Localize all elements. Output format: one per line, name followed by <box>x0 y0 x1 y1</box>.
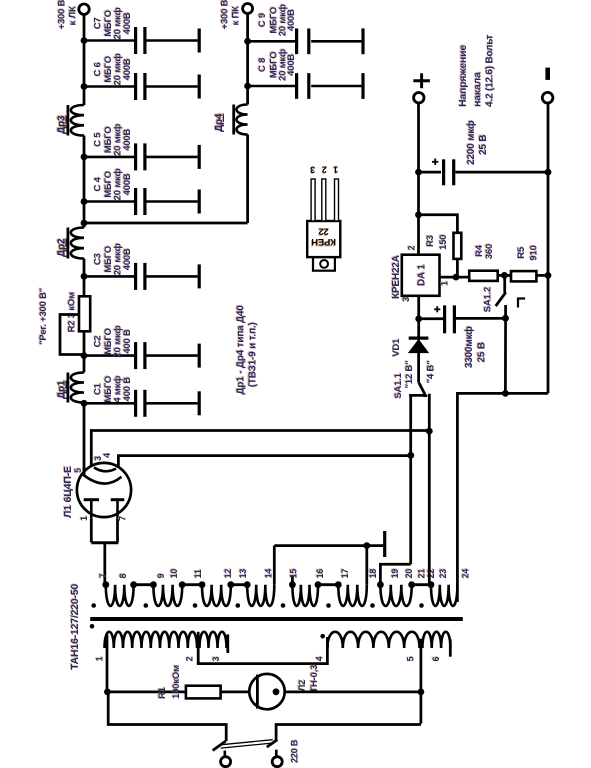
svg-text:1: 1 <box>95 657 105 662</box>
svg-text:Др2: Др2 <box>57 238 68 257</box>
transformer secondary winding 17-18 <box>338 585 367 606</box>
node C9 junction <box>244 38 251 45</box>
svg-text:400В: 400В <box>286 54 297 76</box>
wire DA1 pin2 to plus rail <box>417 215 420 255</box>
svg-text:9: 9 <box>156 574 166 579</box>
node pin 11 <box>199 581 206 588</box>
svg-text:1: 1 <box>79 516 89 521</box>
wire jumper 8-9 <box>134 583 154 586</box>
transformer secondary winding 11-12 <box>202 585 231 606</box>
transformer secondary winding 19-20 <box>380 585 411 606</box>
wire pin5 line <box>420 639 423 724</box>
ground chassis bar <box>383 531 386 557</box>
node 3300uF bottom junction <box>502 315 509 322</box>
plug pole 2 prong <box>272 757 282 767</box>
wire R3 branch <box>419 215 458 233</box>
svg-text:к ПК: к ПК <box>231 6 242 26</box>
capacitor C4 <box>84 200 134 203</box>
wire +300V PK rail <box>246 135 249 224</box>
svg-text:23: 23 <box>438 569 448 579</box>
node pin5 junction <box>418 689 425 696</box>
phasing dots secondary <box>91 603 96 608</box>
transformer secondary winding 9-10 <box>153 585 182 606</box>
wire tube heater loop <box>91 519 117 543</box>
wire R5 to minus rail <box>536 274 548 277</box>
svg-text:R1: R1 <box>157 686 168 699</box>
svg-text:18: 18 <box>368 569 378 579</box>
svg-text:SA1.2: SA1.2 <box>482 287 493 312</box>
svg-text:25 В: 25 В <box>478 135 489 155</box>
wire +300V LK rail <box>83 403 86 475</box>
node pin 13 <box>244 581 251 588</box>
node pin 7 <box>102 581 109 588</box>
svg-text:400В: 400В <box>122 248 133 270</box>
svg-text:16: 16 <box>315 569 325 579</box>
terminal +300 V k LK <box>79 4 89 14</box>
wire jumper 10-11 <box>182 583 202 586</box>
svg-text:8: 8 <box>118 574 128 579</box>
resistor R5 <box>511 271 536 281</box>
capacitor 3300uF <box>419 317 443 320</box>
node C3 junction <box>81 273 88 280</box>
node pin 8 <box>130 581 137 588</box>
wire R4 to R5 <box>498 274 511 277</box>
svg-text:100кОм: 100кОм <box>171 665 182 699</box>
node pin 16 <box>315 581 322 588</box>
node C2 junction <box>81 352 88 359</box>
svg-text:(ТВЗ1-9 и т.п.): (ТВЗ1-9 и т.п.) <box>248 322 259 387</box>
wire pin19 jog <box>380 564 410 584</box>
switch SA1.1 lever <box>419 382 426 396</box>
wire tube pin3 line A <box>91 431 429 467</box>
svg-text:150: 150 <box>438 235 449 250</box>
voltage regulator DA1 box <box>402 255 440 296</box>
svg-text:DA 1: DA 1 <box>417 264 428 286</box>
wire lamp to pin5 line <box>285 691 421 694</box>
wire heater HV line <box>457 393 548 602</box>
svg-text:Напряжение: Напряжение <box>457 45 469 107</box>
node C6 junction <box>81 83 88 90</box>
package drawing KREN22 pins <box>311 179 315 221</box>
svg-text:24: 24 <box>461 569 471 579</box>
svg-text:14: 14 <box>264 569 274 579</box>
svg-text:400 В: 400 В <box>122 329 133 354</box>
svg-text:3: 3 <box>401 297 411 302</box>
svg-text:17: 17 <box>340 569 350 579</box>
node R5 minus junction <box>545 272 552 279</box>
svg-text:3: 3 <box>211 657 221 662</box>
node pin 20 <box>408 581 415 588</box>
node pin 21 <box>428 581 435 588</box>
wire jumper 20-21 <box>412 583 431 586</box>
tube anode arc small <box>94 468 116 472</box>
capacitor 2200uF <box>419 171 442 174</box>
svg-text:"4 В": "4 В" <box>425 361 436 384</box>
package drawing KREN22 hole <box>320 260 328 268</box>
node C5 junction <box>81 154 88 161</box>
transformer primary winding 4-5 <box>327 632 419 648</box>
svg-text:R2 3 кОм: R2 3 кОм <box>67 292 78 332</box>
svg-text:+300 В: +300 В <box>220 0 231 30</box>
capacitor C7 <box>84 39 134 42</box>
node pin 10 <box>179 581 186 588</box>
transformer secondary winding 15-16 <box>292 585 318 606</box>
svg-text:400В: 400В <box>122 12 133 34</box>
node C1 junction <box>81 400 88 407</box>
svg-text:19: 19 <box>390 569 400 579</box>
wire PK feed vertical <box>84 222 248 225</box>
svg-text:22: 22 <box>426 569 436 579</box>
svg-text:+300 В: +300 В <box>57 0 68 30</box>
svg-text:R3: R3 <box>425 235 436 247</box>
wire pin18 lead <box>365 546 368 585</box>
svg-text:1: 1 <box>333 165 338 175</box>
label polarity plus 3300uF <box>436 306 438 312</box>
svg-text:C 9: C 9 <box>257 13 268 27</box>
diode VD1 <box>409 340 427 352</box>
node line B junction <box>407 452 414 459</box>
package drawing KREN22 body <box>307 221 340 257</box>
wire pin1 to bottom chain <box>107 691 185 694</box>
wire pin 2 strap to pin 4 <box>198 632 327 664</box>
node pin 15 <box>289 581 296 588</box>
label polarity plus 2200uF <box>434 159 436 166</box>
node 2200uF minus junction <box>545 169 552 176</box>
svg-text:1: 1 <box>440 281 450 286</box>
node C8 junction <box>244 83 251 90</box>
capacitor C9 <box>248 40 295 43</box>
svg-text:2: 2 <box>322 165 327 175</box>
svg-text:6: 6 <box>431 657 441 662</box>
transformer secondary winding 13-14 <box>247 585 274 606</box>
svg-text:5: 5 <box>73 468 83 473</box>
wire pin1 lead horizontal <box>106 635 109 692</box>
svg-text:Л1 6Ц4П-Е: Л1 6Ц4П-Е <box>62 466 74 518</box>
wire tube heater to pin7 <box>103 543 106 585</box>
transformer primary winding 1-2 <box>105 632 198 648</box>
svg-text:25 В: 25 В <box>476 342 487 362</box>
capacitor C6 <box>84 85 134 88</box>
node pin 17 <box>335 581 342 588</box>
node pin1 junction <box>104 689 111 696</box>
switch SA1.2 direction mark <box>518 299 525 308</box>
wire pin14 riser <box>273 546 276 585</box>
svg-text:220 В: 220 В <box>290 739 300 763</box>
wire R3 to pin1 <box>456 259 459 277</box>
label plus sign <box>420 73 423 88</box>
inductor Dr4 <box>237 105 248 135</box>
svg-text:2200 мкф: 2200 мкф <box>465 120 477 165</box>
switch SA1.1 contact bar <box>409 394 426 397</box>
capacitor C3 <box>84 275 134 278</box>
svg-text:Л2: Л2 <box>297 680 308 692</box>
plug pole 1 prong <box>221 757 231 767</box>
svg-text:Др4: Др4 <box>214 113 225 132</box>
wire pin 1 lead <box>105 647 198 649</box>
capacitor C1 <box>84 402 134 405</box>
node pin 9 <box>150 581 157 588</box>
svg-text:"12 В": "12 В" <box>404 361 415 389</box>
label minus sign <box>545 68 550 80</box>
node line A junction <box>426 428 433 435</box>
svg-text:360: 360 <box>484 244 495 259</box>
wire tube pin5 from rail <box>83 467 86 475</box>
svg-text:22: 22 <box>319 226 329 237</box>
svg-text:4.2 (12.6) Вольт: 4.2 (12.6) Вольт <box>485 35 496 107</box>
resistor R3 <box>454 233 462 259</box>
svg-text:15: 15 <box>289 569 299 579</box>
plug pole 2 blade <box>267 740 278 747</box>
svg-text:SA1.1: SA1.1 <box>393 372 404 398</box>
node SA1.2 line junction <box>502 390 509 397</box>
tube cathode bar 1 <box>84 498 99 501</box>
svg-text:ТАН16-127/220-50: ТАН16-127/220-50 <box>69 584 81 670</box>
svg-text:Др3: Др3 <box>57 115 68 134</box>
inductor Dr3 <box>71 105 84 136</box>
svg-text:7: 7 <box>118 516 128 521</box>
svg-text:12: 12 <box>223 569 233 579</box>
resistor R2 <box>79 296 90 331</box>
svg-text:11: 11 <box>193 569 203 578</box>
wire minus rail <box>547 103 550 393</box>
wire jumper 12-13 <box>231 583 247 586</box>
svg-text:C 8: C 8 <box>257 58 268 72</box>
terminal minus <box>542 92 553 103</box>
tube cathode bar 2 <box>111 498 125 501</box>
transformer primary winding 2-3 <box>200 632 227 648</box>
wire SA1.2 line <box>504 305 507 393</box>
svg-text:Др1 - Др4 типа Д40: Др1 - Др4 типа Д40 <box>236 305 247 395</box>
node pin 19 <box>377 581 384 588</box>
resistor R1 <box>186 686 221 699</box>
svg-text:5: 5 <box>406 657 416 662</box>
wire R1 to lamp <box>221 691 250 694</box>
inductor Dr2 <box>71 228 84 259</box>
svg-text:3300мкф: 3300мкф <box>463 326 475 368</box>
svg-text:накала: накала <box>472 72 484 107</box>
svg-text:2: 2 <box>185 657 195 662</box>
svg-text:"Рег. +300 В": "Рег. +300 В" <box>38 288 49 345</box>
plug coupling bars <box>220 740 272 745</box>
svg-text:R5: R5 <box>516 246 527 259</box>
node C7 junction <box>81 37 88 44</box>
svg-text:КРЕН: КРЕН <box>311 236 336 247</box>
svg-text:400В: 400В <box>122 58 133 80</box>
svg-text:VD1: VD1 <box>391 338 402 357</box>
svg-text:400 В: 400 В <box>122 377 133 402</box>
svg-text:20: 20 <box>404 569 414 579</box>
svg-text:10: 10 <box>169 569 179 579</box>
node 3300uF top junction <box>415 315 422 322</box>
tube L1 6Ts4P-E envelope <box>77 463 131 517</box>
transformer primary winding 5-6 <box>422 632 450 648</box>
wire jumper 16-17 <box>318 583 338 586</box>
capacitor C2 <box>84 354 134 357</box>
svg-text:Др1: Др1 <box>57 380 68 399</box>
node R3 junction <box>453 274 460 281</box>
wire SA1.2 upper stub <box>503 275 506 292</box>
node ground junction <box>363 542 370 549</box>
wire pin 6 stub <box>449 639 452 656</box>
svg-text:3: 3 <box>310 165 315 175</box>
wire plug branch lower <box>276 725 421 741</box>
svg-text:к ЛК: к ЛК <box>68 6 79 25</box>
wire VD1 anode lead <box>417 352 420 382</box>
wire pin 15 stub <box>291 576 294 586</box>
transformer secondary winding 21-24 <box>431 585 457 606</box>
node R4-R5 junction <box>501 272 508 279</box>
phasing dot primary A <box>90 624 95 629</box>
svg-text:400В: 400В <box>286 9 297 31</box>
transformer secondary winding 7-8 <box>106 585 134 606</box>
svg-text:4: 4 <box>315 657 325 662</box>
terminal plus <box>414 93 424 103</box>
svg-text:ТН-0,3: ТН-0,3 <box>309 665 320 693</box>
wire plus heater rail <box>417 103 420 215</box>
svg-text:КРЕН22А: КРЕН22А <box>391 255 402 299</box>
wire VD1 to DA1 pin3 <box>417 296 420 335</box>
plug pole 1 blade <box>213 741 226 750</box>
svg-text:13: 13 <box>238 569 248 579</box>
wire ground bus <box>274 544 384 547</box>
node 2200uF junction <box>415 169 422 176</box>
capacitor C8 <box>248 85 295 88</box>
node Dr4 feed junction <box>81 220 88 227</box>
switch SA1.2 lever <box>496 292 506 306</box>
svg-text:7: 7 <box>98 574 108 579</box>
tube anode arc big <box>83 474 122 483</box>
wire tube pin4 line B <box>118 456 410 468</box>
svg-text:21: 21 <box>417 569 427 579</box>
package drawing KREN22 tab <box>313 257 335 271</box>
svg-text:910: 910 <box>528 245 539 260</box>
svg-text:4: 4 <box>102 453 112 458</box>
wire pin 3 stub <box>226 634 229 653</box>
wire 12V line <box>409 395 412 564</box>
node R3 branch junction <box>415 211 422 218</box>
wire plug branch upper <box>108 692 226 741</box>
terminal +300 V k PK <box>243 4 253 14</box>
transformer core <box>90 617 463 621</box>
capacitor C5 <box>84 156 134 159</box>
wire 4V line <box>428 394 431 587</box>
neon lamp L2 <box>249 674 284 709</box>
inductor Dr1 <box>71 373 84 403</box>
phasing dot primary B <box>320 634 325 639</box>
svg-text:2: 2 <box>407 246 417 251</box>
node pin 12 <box>227 581 234 588</box>
node C4 junction <box>81 198 88 205</box>
resistor R4 <box>469 271 498 281</box>
wire DA1 pin1 down <box>440 276 470 279</box>
svg-text:400В: 400В <box>122 129 133 151</box>
wire Reg tap <box>60 315 84 355</box>
svg-text:400В: 400В <box>122 173 133 195</box>
